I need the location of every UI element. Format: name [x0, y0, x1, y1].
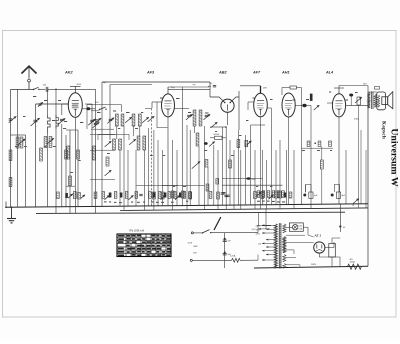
- label 110V: [258, 244, 261, 246]
- transformer mains core: [279, 223, 282, 269]
- resistor bottom row: [189, 192, 192, 199]
- capacitor blob bottom row: [164, 193, 167, 198]
- wire AL4 grid: [327, 102, 332, 104]
- wire column x245.7: [245, 135, 247, 205]
- resistor bottom row: [158, 192, 161, 199]
- wire left column 2: [17, 89, 19, 207]
- resistor: [69, 176, 72, 186]
- svg-text:mW: mW: [193, 253, 197, 255]
- heater tap arrows: [252, 226, 272, 231]
- trimmer capacitor: [38, 102, 43, 106]
- wire mid link: [90, 149, 115, 151]
- label 220V: [256, 226, 261, 228]
- wire AF7 anode bold: [260, 86, 262, 93]
- wire mains taps join: [257, 226, 259, 260]
- svg-text:AH1: AH1: [281, 71, 290, 75]
- wire AB2 right drop: [238, 91, 240, 130]
- wire column x250.6: [251, 125, 265, 205]
- label 10W: [188, 243, 193, 245]
- mains terminal lower: [190, 259, 231, 261]
- transformer mains secondary 1: [283, 224, 286, 233]
- wire: [210, 137, 226, 139]
- wire osc loop bottom2: [98, 134, 129, 140]
- wire column x187: [186, 125, 188, 210]
- label 28V: [263, 88, 267, 90]
- svg-text:AF3: AF3: [146, 71, 155, 75]
- wire elco bracket 2: [334, 185, 339, 193]
- resistor bottom: [73, 192, 76, 199]
- wire column x255: [254, 150, 256, 209]
- resistor: [229, 160, 232, 168]
- trimmer capacitor: [94, 118, 101, 124]
- svg-text:AZ 1: AZ 1: [314, 234, 322, 238]
- wire AL4 top: [334, 88, 344, 94]
- wire column x222.5: [222, 127, 224, 205]
- table title: [129, 230, 145, 233]
- wire column x124: [123, 126, 125, 211]
- field coil 465 ohm: [348, 259, 362, 270]
- wire column x128: [127, 150, 129, 206]
- trimmer capacitor tone: [192, 161, 200, 168]
- capacitor bottom row: [139, 194, 142, 195]
- tube AB2 label: [218, 71, 227, 75]
- wire column: [25, 135, 27, 207]
- wire bracket: [66, 185, 75, 187]
- trimmer capacitor: [314, 105, 320, 110]
- wire column x240.8: [240, 150, 242, 209]
- resistor: [217, 192, 220, 199]
- coil osc pair 1: [115, 114, 124, 126]
- label: [193, 84, 196, 86]
- tube AF7: [254, 93, 268, 117]
- wire column x199: [198, 146, 200, 206]
- trimmer capacitor IF2 right: [203, 114, 210, 120]
- wire column x218: [217, 150, 219, 210]
- wire column x182.7: [182, 87, 184, 206]
- wire heater drop 1: [258, 213, 260, 226]
- label 245V: [354, 119, 360, 121]
- wire column x136: [135, 150, 137, 206]
- wire column x120: [119, 150, 121, 206]
- transformer mains secondary 3: [283, 255, 286, 262]
- coil lower pair 1: [113, 139, 122, 150]
- resistor: [65, 150, 68, 159]
- wire: [61, 124, 63, 207]
- trimmer capacitor osc: [58, 118, 66, 124]
- trimmer arrow bottom row: [161, 195, 166, 199]
- wire heater drop 2: [265, 209, 267, 229]
- wire IF2 right: [204, 126, 206, 210]
- coil IF2 secondary: [196, 133, 199, 146]
- trimmer capacitor: [125, 117, 132, 123]
- trimmer arrow bottom row: [129, 195, 134, 199]
- resistor: [171, 191, 174, 198]
- wire AZ1 bottom: [319, 253, 340, 266]
- wire lamp: [286, 227, 308, 235]
- trimmer capacitor AF3 grid: [148, 116, 155, 122]
- svg-text:50000: 50000: [214, 134, 220, 136]
- svg-text:Kapsch: Kapsch: [380, 121, 386, 139]
- wire bus1 left terminal: [5, 202, 7, 209]
- wire column x366: [365, 150, 367, 208]
- tube AF3 label: [146, 71, 155, 75]
- svg-text:AK2: AK2: [64, 71, 73, 75]
- resistor bottom: [94, 192, 97, 199]
- resistor pair: [44, 137, 54, 148]
- resistor: [161, 192, 164, 199]
- wire AF3 cathode: [167, 117, 169, 206]
- resistor: [329, 141, 332, 147]
- transformer mains secondary 2: [283, 237, 286, 253]
- component value labels upper (illegible): [23, 92, 358, 124]
- resistor bottom row right: [272, 191, 275, 198]
- transformer mains primary: [274, 224, 277, 268]
- wire column x208: [207, 167, 209, 205]
- coil antenna L1: [48, 115, 51, 133]
- wire AF3 anode: [168, 90, 210, 94]
- wire speaker top: [368, 91, 377, 93]
- resistor bottom row: [183, 192, 186, 199]
- trimmer capacitor: [93, 122, 100, 128]
- wire mid link: [90, 134, 115, 136]
- label: [103, 82, 107, 84]
- wire column x262.5: [262, 150, 264, 205]
- resistor bottom: [289, 192, 292, 198]
- svg-text:0,25A: 0,25A: [230, 255, 236, 258]
- wire AF3 grid bracket: [157, 102, 168, 128]
- wire: [145, 107, 152, 109]
- resistor bottom row: [114, 192, 117, 199]
- wire AL4 B+ feed: [339, 86, 368, 93]
- tube AZ1: [314, 242, 325, 253]
- trimmer arrow bottom: [81, 195, 85, 199]
- svg-text:Universum W: Universum W: [388, 128, 399, 187]
- tube AK2: [68, 93, 82, 118]
- wire column x311: [310, 106, 312, 209]
- capacitor antenna series: [43, 85, 48, 92]
- label 150V: [256, 230, 261, 232]
- svg-text:AF7: AF7: [252, 71, 261, 75]
- wire column x190: [189, 130, 191, 206]
- trimmer arrow bottom: [68, 194, 73, 198]
- capacitor blob bottom: [284, 193, 287, 198]
- coil osc pair 2: [132, 114, 141, 126]
- wire tuning cap 1: [35, 104, 37, 207]
- label 280V: [311, 264, 317, 266]
- transformer mains secondary 4: [283, 264, 286, 269]
- wire right rail: [367, 92, 369, 266]
- label 281: [363, 84, 367, 86]
- wire column x286.5: [286, 150, 288, 205]
- resistor bottom row right: [277, 191, 280, 198]
- wire link: [11, 134, 26, 136]
- resistor bottom row: [102, 192, 105, 199]
- text Universum W: [388, 128, 399, 187]
- wire: [358, 105, 360, 208]
- trimmer capacitor: [105, 141, 112, 147]
- svg-text:0,5µF: 0,5µF: [251, 179, 257, 181]
- speaker: [377, 92, 393, 110]
- table tube data: [117, 234, 171, 257]
- wire osc loop bottom: [91, 128, 114, 130]
- wire left rail: [10, 90, 12, 208]
- tube AH1: [282, 93, 295, 117]
- wire column x116: [116, 126, 118, 139]
- wire column x70: [69, 130, 71, 213]
- tube AL4: [332, 94, 345, 117]
- svg-text:110: 110: [258, 244, 261, 246]
- variable capacitor C1: [31, 118, 40, 126]
- trimmer arrow: [269, 195, 274, 199]
- wire column x92: [91, 104, 93, 207]
- tube AK2 label: [64, 71, 73, 75]
- wire avc long 2: [222, 184, 283, 186]
- component value labels (illegible): [15, 128, 332, 203]
- trimmer capacitor: [142, 117, 149, 123]
- wire column x213.8: [213, 145, 215, 205]
- antenna symbol: [22, 66, 37, 89]
- wire column x276: [275, 150, 277, 205]
- resistor bottom row right: [257, 191, 260, 198]
- resistor AH1 top: [290, 86, 297, 89]
- trimmer capacitor: [105, 170, 112, 176]
- resistor: [275, 191, 278, 198]
- capacitor: [224, 195, 228, 196]
- wire antenna lead: [11, 89, 34, 91]
- resistor: [257, 192, 264, 199]
- capacitor pair: [222, 193, 229, 197]
- label: [193, 253, 197, 255]
- resistor bottom row: [174, 192, 177, 199]
- trimmer arrow bottom row: [105, 195, 110, 199]
- wire column x56: [55, 89, 57, 133]
- resistor bottom row: [135, 192, 138, 199]
- wire column x172.7: [172, 140, 174, 210]
- wire link: [85, 103, 92, 105]
- tube AF7 label: [252, 71, 261, 75]
- wire AF3 top to bus: [168, 87, 209, 90]
- resistor: [106, 157, 109, 166]
- wire AK2 anode top: [70, 84, 82, 93]
- wire column x66: [65, 135, 67, 207]
- svg-text:AL4: AL4: [325, 71, 334, 75]
- tube AZ1 label: [314, 234, 322, 238]
- wire AB2 cathode: [227, 112, 229, 125]
- electrolytic cathode: [355, 97, 362, 105]
- resistor: [318, 141, 321, 147]
- capacitor blob AL4: [349, 94, 353, 106]
- wire grid line AK2: [36, 103, 69, 105]
- switch antenna: [33, 87, 40, 90]
- resistor: [216, 179, 219, 185]
- capacitor blob bottom row: [153, 193, 156, 198]
- mains terminal upper: [191, 232, 202, 234]
- trimmer capacitor: [129, 139, 136, 145]
- wire column x148: [148, 128, 150, 206]
- wire column x195: [194, 126, 196, 133]
- coil oscillator: [40, 148, 43, 161]
- svg-text:cap: cap: [193, 84, 196, 86]
- wire AZ1 left: [286, 235, 314, 242]
- tube AL4 label: [325, 71, 334, 75]
- wire mid link: [162, 185, 178, 187]
- resistor mid: [320, 160, 323, 169]
- resistor: [205, 160, 208, 168]
- wire avc line: [210, 126, 227, 128]
- component dark: [310, 94, 313, 101]
- wire chassis bus 1: [6, 204, 368, 208]
- resistor: [279, 191, 282, 198]
- resistor: [77, 150, 80, 159]
- wire: [47, 133, 49, 207]
- wire AF7 cathode: [260, 117, 262, 209]
- wire column x234: [233, 150, 235, 209]
- capacitor blob bottom row: [179, 193, 182, 198]
- node antenna branch: [55, 89, 57, 91]
- trimmer capacitor: [107, 118, 114, 124]
- resistor: [209, 192, 212, 199]
- wire AB2 left arm: [210, 97, 223, 101]
- wire: [47, 89, 49, 115]
- resistor: [181, 191, 184, 198]
- wire field box drop: [332, 238, 340, 266]
- wire AF3 plate link: [175, 108, 190, 110]
- wire column x346: [345, 150, 347, 204]
- speaker field box: [329, 244, 336, 258]
- svg-text:125V: 125V: [256, 233, 261, 235]
- wire column x230: [229, 140, 231, 205]
- wire: [305, 185, 307, 193]
- coil osc section: [67, 146, 70, 159]
- wire AF7 right: [267, 108, 271, 205]
- resistor: [307, 141, 310, 147]
- wire column x266: [266, 160, 268, 209]
- resistor: [153, 192, 156, 199]
- wire column x78: [77, 130, 79, 207]
- switch mains: [202, 230, 258, 234]
- trimmer capacitor: [88, 119, 96, 125]
- potentiometer arm: [209, 142, 215, 147]
- wire chassis bus 2: [36, 212, 345, 213]
- trimmer capacitor IF2 left: [186, 114, 193, 120]
- wire column x294: [293, 150, 295, 209]
- svg-text:1000Ω: 1000Ω: [350, 261, 356, 263]
- wire secondary stub 2: [286, 257, 296, 259]
- trimmer capacitor left rail: [9, 116, 17, 122]
- tube AF3: [162, 94, 175, 117]
- resistor bottom row right: [282, 191, 285, 198]
- wire column x361: [360, 130, 362, 204]
- capacitor blob bottom: [65, 193, 68, 198]
- wire column x158: [157, 140, 159, 206]
- switch tone: [353, 199, 359, 208]
- wire avc long: [222, 178, 263, 180]
- transformer primary taps: [262, 224, 274, 261]
- wire secondary stub 3: [286, 265, 300, 267]
- wire column x162.7: [162, 150, 164, 206]
- resistor bottom row: [168, 192, 171, 199]
- resistor left rail: [9, 150, 12, 161]
- svg-text:7Fa 1935 mW: 7Fa 1935 mW: [129, 230, 145, 233]
- wire chassis bus mid: [120, 208, 368, 211]
- wire column x226.2: [225, 127, 227, 209]
- wire mid link: [136, 184, 205, 186]
- switch wave band: [99, 107, 107, 110]
- capacitor coupling AK2 out: [82, 107, 95, 110]
- resistor bottom: [78, 193, 81, 200]
- wire: [55, 133, 57, 213]
- capacitor line filter 1: [223, 233, 232, 268]
- wire link: [66, 129, 78, 131]
- capacitor AB2 top: [208, 83, 216, 87]
- wire: [48, 89, 96, 110]
- capacitor electrolytic 8uF: [331, 192, 346, 198]
- wire secondary stub: [286, 234, 305, 236]
- label MW switch: [194, 246, 199, 248]
- resistor bottom row: [125, 192, 128, 199]
- wire loop right drop: [209, 82, 211, 97]
- svg-text:200V: 200V: [77, 84, 82, 86]
- wire AH1 top: [282, 88, 301, 96]
- wire secondary to right: [286, 250, 294, 254]
- svg-text:150V: 150V: [256, 230, 261, 232]
- wire AF7 top line: [240, 85, 261, 87]
- capacitor blob AH1 right: [302, 104, 306, 107]
- wire column x140: [139, 126, 141, 136]
- wire decoupling rail: [301, 147, 333, 149]
- transformer output secondary: [374, 94, 377, 107]
- text Kapsch: [380, 121, 386, 139]
- ground chassis symbol: [7, 206, 16, 222]
- coil: [56, 115, 58, 129]
- capacitor blob: [247, 177, 257, 181]
- wire column x153.9: [153, 130, 155, 210]
- fuse 0.25A: [230, 255, 258, 263]
- resistor bottom row right: [267, 191, 270, 198]
- wire loop left drop: [101, 82, 103, 170]
- wire tuning gang dashed: [151, 108, 153, 206]
- wire: [39, 88, 45, 90]
- wire column x95.5: [95, 110, 97, 213]
- wire elco bracket 1: [306, 185, 311, 193]
- wire column x177: [176, 150, 178, 206]
- capacitor blob bottom row: [109, 193, 112, 198]
- wire AF3 grid: [152, 102, 162, 108]
- transformer output primary: [367, 93, 370, 109]
- trimmer arrow bottom row: [175, 195, 180, 199]
- wire heater/power bottom bus: [254, 266, 368, 268]
- tube AH1 label: [281, 71, 290, 75]
- wire mid link: [90, 178, 115, 180]
- wire inner loop: [110, 85, 152, 141]
- resistor bottom row: [149, 192, 152, 199]
- resistor: [16, 137, 19, 148]
- resistor bottom row right: [262, 191, 265, 198]
- svg-text:10 W: 10 W: [188, 243, 193, 245]
- dial lamp box: [289, 223, 303, 231]
- wire column x322: [321, 147, 323, 205]
- svg-text:280V: 280V: [311, 264, 317, 266]
- capacitor line filter 2: [223, 251, 232, 256]
- wire: [101, 170, 103, 206]
- wire column x280: [279, 140, 281, 209]
- wire AH1 cathode: [288, 117, 290, 205]
- wire AF7 grid left: [248, 102, 254, 110]
- resistor 50000: [214, 134, 223, 139]
- capacitor electrolytic 4uF: [303, 192, 318, 198]
- resistor: [206, 184, 209, 191]
- wire: [295, 105, 311, 107]
